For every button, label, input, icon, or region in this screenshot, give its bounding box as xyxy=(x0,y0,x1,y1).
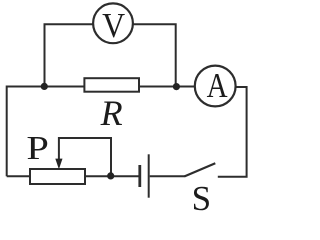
svg-text:V: V xyxy=(102,6,125,45)
wire ammeter to right rail down to switch contact xyxy=(218,87,247,177)
ammeter U2 circle xyxy=(195,66,236,107)
wiper branch of rheostat xyxy=(59,138,111,176)
wire middle left (left rail to resistor) xyxy=(7,87,85,177)
voltmeter U1 circle xyxy=(93,3,133,43)
node junction bottom xyxy=(107,172,114,179)
switch S lever xyxy=(185,163,216,176)
svg-text:R: R xyxy=(100,93,123,133)
battery positive plate (long) xyxy=(148,154,150,197)
wire battery to switch pivot xyxy=(150,175,185,177)
rheostat P box xyxy=(30,169,85,184)
svg-text:A: A xyxy=(207,66,229,105)
battery negative plate (short) xyxy=(138,165,141,187)
wire bottom left to rheostat xyxy=(7,175,30,177)
svg-text:S: S xyxy=(192,179,211,214)
wire voltmeter to right branch corner xyxy=(133,24,176,86)
node junction left xyxy=(41,83,48,90)
node junction right xyxy=(173,83,180,90)
resistor R box xyxy=(84,78,139,92)
wire top-left (node to voltmeter) xyxy=(45,24,94,86)
rheostat wiper arrowhead xyxy=(55,159,62,170)
wire resistor to ammeter xyxy=(139,86,195,88)
wire rheostat to battery xyxy=(85,175,139,177)
svg-text:P: P xyxy=(26,130,49,167)
